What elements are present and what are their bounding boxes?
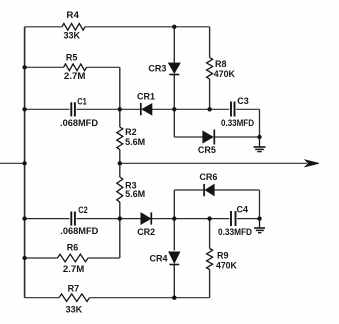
wire: right column bottom (CR6 to C4/ground node)	[259, 190, 261, 219]
resistor R4 33K	[62, 10, 85, 41]
svg-text:R8: R8	[215, 59, 227, 69]
svg-text:CR1: CR1	[137, 92, 155, 102]
svg-text:C2: C2	[78, 205, 88, 215]
node: bus/R6	[22, 256, 26, 260]
node: mid/output	[118, 161, 122, 165]
wire: CR4 column	[173, 190, 175, 298]
capacitor C2 .068MFD	[60, 205, 99, 236]
resistor R3 5.6M	[117, 177, 145, 202]
svg-text:470K: 470K	[216, 260, 237, 270]
svg-text:2.7M: 2.7M	[64, 71, 86, 81]
node: bus/R5	[22, 65, 26, 69]
ground (bottom, C4 node)	[254, 219, 265, 233]
svg-text:R5: R5	[66, 53, 78, 63]
svg-text:5.6M: 5.6M	[125, 189, 145, 199]
svg-text:CR5: CR5	[198, 145, 216, 155]
resistor R5 2.7M	[64, 53, 87, 82]
svg-text:.068MFD: .068MFD	[60, 118, 99, 128]
capacitor C3 0.33MFD	[221, 96, 254, 128]
svg-text:R7: R7	[68, 284, 80, 294]
ground (top, C3/CR5 node)	[254, 137, 266, 152]
wire: input line (left edge)	[0, 162, 25, 164]
wire: C2 row	[25, 218, 260, 220]
svg-text:CR3: CR3	[148, 64, 166, 74]
svg-text:33K: 33K	[64, 31, 81, 41]
svg-text:0.33MFD: 0.33MFD	[218, 227, 252, 237]
node: R9/C2 row	[207, 216, 211, 220]
node: CR4/bottom row	[172, 296, 176, 300]
wire: right column top (C3 down to CR5/ground node)	[259, 109, 261, 137]
wire: R5 row	[25, 66, 120, 68]
svg-text:C3: C3	[237, 96, 249, 106]
diode CR3 (pointing down)	[148, 63, 180, 75]
node: mid/C1	[118, 107, 122, 111]
diode CR2 (pointing right)	[137, 212, 155, 236]
node: CR4/C2 row	[172, 216, 176, 220]
diode CR6 (pointing left)	[199, 172, 217, 197]
diode CR1 (pointing left)	[137, 92, 155, 116]
svg-text:R2: R2	[125, 127, 137, 137]
resistor R2 5.6M	[117, 127, 145, 150]
wire: bottom row (R7 row)	[25, 297, 210, 299]
node: CR3/C1 row	[172, 107, 176, 111]
svg-text:C1: C1	[77, 97, 87, 107]
wire: middle column (R2/R3)	[119, 67, 121, 258]
svg-text:C4: C4	[237, 205, 249, 215]
svg-text:0.33MFD: 0.33MFD	[221, 118, 254, 128]
wire: R8 column	[209, 27, 211, 110]
node: CR3/top row	[172, 25, 176, 29]
node: bus/input	[22, 161, 26, 165]
wire: C1 row	[25, 108, 260, 110]
wire: top row (R4 row)	[25, 26, 210, 28]
svg-text:CR4: CR4	[149, 254, 167, 264]
node: C4/ground	[257, 216, 261, 220]
diode CR4 (pointing down)	[149, 252, 180, 265]
svg-text:CR2: CR2	[137, 227, 155, 237]
wire: R9 column	[209, 219, 211, 298]
svg-text:33K: 33K	[66, 305, 83, 315]
node: C3/CR5/ground	[257, 135, 261, 139]
svg-text:R6: R6	[67, 243, 79, 253]
svg-text:R9: R9	[217, 250, 229, 260]
svg-text:2.7M: 2.7M	[63, 264, 85, 274]
svg-text:.068MFD: .068MFD	[60, 226, 99, 236]
svg-text:470K: 470K	[214, 69, 236, 79]
wire: CR6 row	[174, 189, 259, 191]
wire: output line	[120, 162, 307, 164]
output arrowhead	[305, 160, 319, 167]
node: bus/C2	[22, 216, 26, 220]
node: bus/C1	[22, 107, 26, 111]
svg-text:5.6M: 5.6M	[125, 137, 145, 147]
wire: CR3 column	[173, 27, 175, 137]
wire: left vertical bus	[24, 27, 26, 298]
resistor R8 470K	[207, 58, 236, 80]
node: mid/C2	[118, 216, 122, 220]
capacitor C1 .068MFD	[60, 97, 99, 129]
svg-text:R4: R4	[66, 10, 79, 20]
wire: R6 row	[25, 257, 120, 259]
resistor R9 470K	[207, 249, 238, 271]
svg-text:CR6: CR6	[199, 172, 217, 182]
resistor R6 2.7M	[58, 243, 89, 275]
node: R8/C1 row	[207, 107, 211, 111]
diode CR5 (pointing right)	[198, 130, 216, 156]
capacitor C4 0.33MFD	[218, 205, 252, 237]
wire: CR5 row	[174, 136, 259, 138]
resistor R7 33K	[59, 284, 90, 315]
